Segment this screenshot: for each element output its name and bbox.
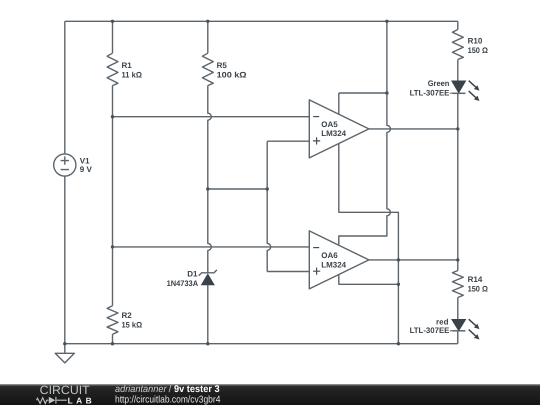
svg-text:red: red [436, 317, 449, 326]
wire reference link [208, 188, 267, 190]
LED red LTL-307EE [450, 319, 480, 339]
wire R1 top lead [112, 21, 114, 53]
svg-text:150 Ω: 150 Ω [468, 285, 489, 294]
footer bar [0, 383, 540, 405]
svg-text:100 kΩ: 100 kΩ [217, 70, 248, 79]
node reference link left junction [206, 187, 209, 190]
node top rail R5 junction [206, 20, 209, 23]
svg-text:CIRCUIT: CIRCUIT [40, 383, 91, 397]
wire R5 to D1 column with hops [208, 86, 212, 273]
wire R10 top lead [457, 21, 459, 29]
svg-text:LM324: LM324 [321, 260, 346, 269]
op-amp OA6 LM324 [309, 231, 369, 289]
wire R10 to green LED [457, 60, 459, 82]
wire divider rail to OA5 minus [113, 116, 310, 118]
resistor R10 [452, 30, 463, 60]
wire red LED bottom lead [457, 331, 459, 344]
wire R14 to red LED [457, 298, 459, 320]
node divider-R1 junction [111, 20, 114, 23]
wire OA6 V- pin to ground link [339, 274, 399, 284]
svg-text:9 V: 9 V [80, 165, 93, 174]
wire V1 column top [64, 21, 66, 154]
LED green LTL-307EE [450, 81, 480, 101]
svg-text:LTL-307EE: LTL-307EE [410, 88, 450, 97]
svg-text:R1: R1 [122, 61, 133, 70]
wire OA6 plus input [267, 271, 309, 273]
svg-text:LM324: LM324 [321, 129, 346, 138]
svg-text:R14: R14 [468, 275, 483, 284]
resistor R2 [107, 306, 118, 335]
svg-text:11 kΩ: 11 kΩ [122, 70, 143, 79]
node OA6 output crossing junction [397, 258, 400, 261]
svg-text:OA6: OA6 [321, 251, 338, 260]
node OA6 V- junction [397, 283, 400, 286]
resistor R5 [202, 53, 213, 85]
wire top rail 9V [65, 20, 458, 22]
wire divider rail to OA6 minus [113, 246, 310, 248]
wire V1 column bottom to ground [64, 176, 66, 353]
node OA5 output LED junction [456, 127, 459, 130]
wire OA5 V- pin to ground link [339, 143, 399, 344]
wire OA5 output [369, 128, 458, 130]
svg-text:LAB: LAB [68, 396, 92, 405]
wire OA5 V+ pin [338, 93, 340, 115]
wire R1-R2 column [112, 86, 114, 306]
op-amp OA5 LM324 [309, 100, 369, 158]
node reference link right junction [266, 187, 269, 190]
svg-text:V1: V1 [80, 156, 90, 165]
node ground rail R2 junction [111, 342, 114, 345]
wire OA5 plus input [267, 140, 309, 142]
svg-text:150 Ω: 150 Ω [468, 46, 489, 55]
voltage source V1 [54, 154, 76, 176]
svg-text:1N4733A: 1N4733A [167, 279, 199, 288]
wire green LED to R14 column [457, 93, 459, 270]
node ground rail V1 junction [63, 342, 66, 345]
node ground rail drop junction [397, 342, 400, 345]
zener diode D1 1N4733A [199, 270, 217, 285]
node top rail drop junction [385, 20, 388, 23]
svg-text:R10: R10 [468, 37, 483, 46]
svg-text:R2: R2 [122, 311, 133, 320]
wire D1 bottom lead [207, 285, 209, 344]
wire R2 bottom lead [112, 334, 114, 343]
wire R5 top lead [207, 21, 209, 53]
wire OA6 output [369, 259, 458, 261]
svg-text:http://circuitlab.com/cv3gbr4: http://circuitlab.com/cv3gbr4 [115, 394, 221, 405]
resistor R14 [452, 271, 463, 298]
wire 9V drop column with hops [339, 21, 391, 245]
node OA5 V+ junction [385, 91, 388, 94]
svg-text:D1: D1 [187, 270, 198, 279]
ground [55, 353, 74, 363]
node OA5 minus rail junction [111, 115, 114, 118]
svg-text:LTL-307EE: LTL-307EE [410, 326, 450, 335]
node OA6 output R14 junction [456, 258, 459, 261]
svg-text:15 kΩ: 15 kΩ [122, 321, 143, 330]
wire bottom ground rail [65, 343, 458, 345]
wire OA5 V+ to rail link [339, 92, 387, 94]
node ground rail D1 junction [206, 342, 209, 345]
svg-text:OA5: OA5 [321, 120, 338, 129]
resistor R1 [107, 53, 118, 85]
wire reference column with hop [267, 141, 271, 271]
node OA6 minus rail junction [111, 245, 114, 248]
svg-text:R5: R5 [217, 61, 228, 70]
svg-text:Green: Green [428, 79, 450, 88]
